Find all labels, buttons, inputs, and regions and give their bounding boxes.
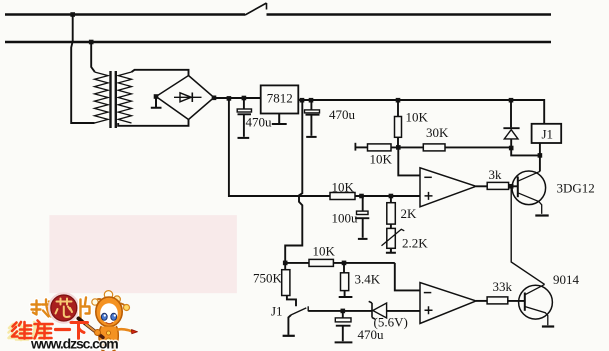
node dot R5 top bbox=[389, 194, 394, 199]
wire rectified rail down to R4 row bbox=[229, 98, 330, 196]
node dot R1 bottom junction bbox=[396, 145, 401, 150]
transformer T1 core bar right bbox=[115, 71, 117, 128]
watermark logo group bbox=[9, 291, 138, 351]
svg-text:30K: 30K bbox=[426, 125, 449, 140]
node dot on line 1 bbox=[70, 12, 75, 17]
svg-text:10K: 10K bbox=[332, 180, 355, 195]
resistor R8 10K bbox=[309, 259, 333, 266]
bridge internal diode wire bbox=[174, 96, 202, 98]
wire Q1 base node down to Q2 collector bbox=[511, 186, 544, 284]
wire relay bottom pin down to Q1 collector bbox=[539, 143, 541, 171]
switch J1 right contact tick bbox=[307, 306, 309, 311]
wire R8 to U2 minus bbox=[333, 263, 420, 291]
watermark mascot right arm with pointer bbox=[118, 329, 133, 331]
resistor R11 33k bbox=[487, 297, 508, 304]
op-amp U1 bbox=[420, 168, 476, 207]
wire R9 bottom to switch fixed contact bbox=[287, 296, 296, 307]
wire R2 to R3 bbox=[391, 146, 423, 148]
wire bridge output to 7812 bbox=[214, 97, 261, 99]
transformer T1 primary winding bbox=[95, 72, 109, 123]
node dot D1 bottom bbox=[509, 146, 514, 151]
capacitor C4 470u bbox=[342, 311, 344, 318]
svg-text:www.dzsc.com: www.dzsc.com bbox=[30, 336, 118, 351]
svg-text:J1: J1 bbox=[271, 304, 283, 319]
bridge rectifier diamond bbox=[156, 76, 214, 120]
resistor R1 10K vertical bbox=[397, 100, 399, 117]
watermark mascot mouth bbox=[106, 323, 113, 324]
wire R7 to Q1 base bbox=[509, 185, 518, 187]
svg-text:3DG12: 3DG12 bbox=[557, 181, 595, 196]
watermark mascot antenna stalks bbox=[96, 296, 127, 308]
capacitor C3 100u bbox=[362, 196, 364, 211]
diode D1 flyback bbox=[510, 100, 512, 127]
watermark char 片 bbox=[81, 298, 90, 319]
wire lower node to R8 bbox=[285, 262, 309, 264]
ground at bridge left vertex bbox=[151, 97, 162, 108]
svg-text:7812: 7812 bbox=[267, 90, 293, 105]
watermark red text 维库一下 yellow shadow bbox=[9, 322, 50, 340]
bridge internal diode cathode bar bbox=[191, 93, 193, 103]
zener diode D2 bbox=[369, 301, 376, 319]
resistor R9 750K bbox=[284, 263, 286, 270]
wire R4 to op-amp U1 plus input bbox=[355, 195, 420, 197]
resistor R3 30K bbox=[423, 144, 445, 151]
ground of 7812 bbox=[272, 114, 287, 125]
transistor Q2 9014 bbox=[519, 285, 553, 319]
wire terminal to R2 bbox=[355, 146, 367, 148]
svg-text:2K: 2K bbox=[401, 206, 418, 221]
node dot Q1 base junction bbox=[509, 184, 514, 189]
capacitor C1 470u bbox=[243, 98, 245, 109]
node dot at relay bottom pin bbox=[538, 153, 543, 158]
svg-text:(5.6V): (5.6V) bbox=[374, 315, 408, 330]
watermark mascot head bbox=[96, 297, 122, 327]
node dot on line 2 bbox=[89, 40, 94, 45]
potentiometer R6 2.2K bbox=[390, 224, 392, 228]
wire from line 2 to transformer primary top bbox=[91, 42, 95, 72]
node dot bridge right vertex bbox=[212, 96, 217, 101]
node dot capacitor C1 top bbox=[242, 96, 247, 101]
transformer T1 secondary winding bbox=[118, 72, 131, 123]
wire AC line 1 left segment bbox=[5, 13, 245, 16]
node dot R10 top bbox=[342, 261, 347, 266]
ground at Q2 emitter bbox=[542, 325, 554, 327]
relay J1 box bbox=[532, 124, 562, 143]
switch S1 blade on AC line 1 bbox=[245, 3, 267, 15]
node dot rail at R1 top bbox=[396, 98, 401, 103]
wire R3 to diode node bbox=[445, 146, 511, 148]
switch J1 (bottom) blade bbox=[291, 308, 306, 315]
watermark mascot eyes bbox=[101, 313, 107, 320]
wire 7812 output down with hop to lower-left node bbox=[285, 100, 302, 263]
watermark mascot feet bbox=[102, 347, 114, 351]
wire from line 1 down left side to transformer primary bottom bbox=[71, 15, 94, 124]
wire jog from D1 node to relay pin bbox=[511, 148, 540, 155]
node dot rectified rail A bbox=[227, 96, 232, 101]
wire secondary bottom to bridge bottom vertex bbox=[118, 120, 188, 126]
wire AC line 2 bbox=[5, 41, 551, 44]
watermark magnifier circle with 芯 bbox=[49, 294, 78, 323]
wire 7812 output rail to relay corner bbox=[298, 100, 544, 124]
svg-text:10K: 10K bbox=[370, 152, 393, 167]
wire AC line 1 right segment bbox=[267, 13, 552, 16]
wire switch to zener anode bbox=[308, 310, 372, 312]
svg-text:3k: 3k bbox=[489, 167, 503, 182]
terminal bar below R6 bbox=[386, 248, 396, 252]
node dot C3 top bbox=[359, 194, 364, 199]
watermark char 找 (orange with white halo) bbox=[32, 300, 52, 317]
resistor R7 3k bbox=[487, 182, 508, 189]
watermark mascot left hand on pen bbox=[95, 330, 101, 336]
wire U1 minus input from R2/R3 node bbox=[398, 147, 420, 175]
capacitor C2 470u bbox=[310, 100, 312, 110]
svg-text:100u: 100u bbox=[332, 211, 359, 226]
svg-text:3.4K: 3.4K bbox=[355, 272, 381, 287]
svg-text:2.2K: 2.2K bbox=[402, 236, 428, 251]
node dot 7812 output bbox=[300, 98, 305, 103]
svg-text:10K: 10K bbox=[406, 110, 429, 125]
svg-text:9014: 9014 bbox=[553, 272, 580, 287]
wire zener to U2 plus bbox=[387, 310, 420, 312]
node dot capacitor C2 top bbox=[309, 98, 314, 103]
watermark mascot antenna balls bbox=[92, 299, 98, 305]
input terminal bar at left of R2 bbox=[354, 143, 356, 151]
wire U2 output to R11 bbox=[476, 300, 487, 302]
ground at Q1 emitter bbox=[535, 214, 548, 216]
regulator U3 7812 box bbox=[261, 85, 299, 113]
resistor R4 10K bbox=[330, 193, 355, 200]
resistor R2 10K bbox=[368, 144, 392, 151]
transistor Q1 3DG12 bbox=[512, 171, 546, 205]
transformer T1 core bar left bbox=[109, 71, 111, 128]
wire switch left terminal to ground bbox=[288, 315, 291, 335]
svg-text:J1: J1 bbox=[542, 127, 554, 142]
bridge internal diode triangle bbox=[180, 93, 191, 102]
resistor R10 3.4K bbox=[343, 263, 345, 273]
svg-text:470u: 470u bbox=[246, 115, 273, 130]
svg-text:750K: 750K bbox=[253, 271, 283, 286]
watermark pink rectangle bbox=[49, 215, 237, 293]
wire R11 to Q2 base bbox=[508, 300, 525, 302]
resistor R5 2K bbox=[390, 196, 392, 203]
watermark mascot pen bbox=[81, 321, 103, 338]
watermark mascot body bbox=[99, 327, 118, 347]
op-amp U2 bbox=[420, 283, 476, 324]
node dot rail at diode D1 top bbox=[509, 98, 514, 103]
svg-text:10K: 10K bbox=[313, 244, 336, 259]
svg-text:33k: 33k bbox=[493, 279, 513, 294]
wire U1 output to R7 bbox=[476, 185, 487, 187]
node dot C4 top bbox=[341, 309, 346, 314]
node dot lower-left junction bbox=[283, 261, 288, 266]
wire secondary top to bridge top vertex bbox=[132, 70, 189, 76]
svg-text:470u: 470u bbox=[329, 107, 356, 122]
ground at switch bbox=[283, 335, 295, 337]
node dot bridge left vertex bbox=[154, 94, 159, 99]
watermark red text 维库一下 bbox=[12, 321, 88, 339]
